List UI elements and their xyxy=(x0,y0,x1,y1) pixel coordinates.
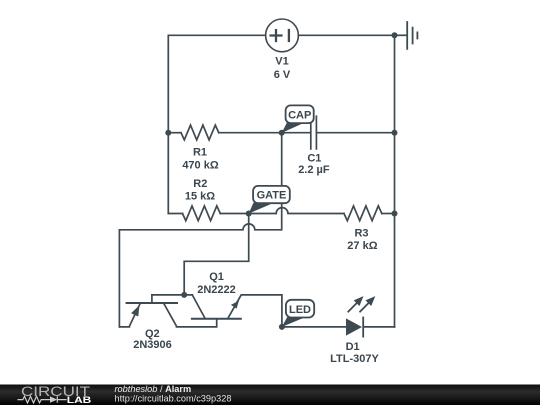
right rail xyxy=(394,35,396,327)
svg-text:C1: C1 xyxy=(307,152,321,164)
transistor Q2 collector xyxy=(164,304,176,326)
transistor Q1 collector xyxy=(192,295,205,318)
LED light arrows xyxy=(348,302,358,312)
LED D1 cathode bar and wire to rail xyxy=(363,318,394,337)
svg-text:D1: D1 xyxy=(346,341,360,353)
voltage source V1 xyxy=(266,19,299,52)
junction dot R3 right xyxy=(392,211,398,217)
resistor R3 xyxy=(344,206,382,221)
junction dot base node xyxy=(181,292,187,298)
wire R3 to right rail xyxy=(382,213,395,215)
svg-text:R3: R3 xyxy=(354,228,368,240)
svg-text:LED: LED xyxy=(289,304,311,316)
svg-text:R2: R2 xyxy=(193,178,207,190)
junction dot R1 left xyxy=(165,130,171,136)
Q1 emitter arrowhead xyxy=(231,301,239,309)
svg-text:R1: R1 xyxy=(193,146,207,158)
transistor Q2 base bar xyxy=(127,302,177,304)
wire GATE node to R3 (hump over vertical) xyxy=(249,208,344,214)
svg-text:6 V: 6 V xyxy=(274,69,291,81)
logo resistor-diode glyph xyxy=(18,396,67,403)
wire R2 row with hump over x=282 xyxy=(168,213,182,215)
wire left rail to R1 xyxy=(168,132,181,134)
svg-text:2N2222: 2N2222 xyxy=(197,284,236,296)
wire top-left and left rail xyxy=(168,35,265,213)
svg-text:15 kΩ: 15 kΩ xyxy=(185,191,215,203)
wire CAP node down, left (hump over x=249), down to Q2 emitter xyxy=(119,133,281,327)
callout CAP xyxy=(282,105,314,132)
callout GATE xyxy=(249,186,290,214)
wire V1 to ground xyxy=(298,34,394,36)
svg-text:27 kΩ: 27 kΩ xyxy=(347,240,377,252)
wire Q1 base to Q2 collector xyxy=(177,319,217,327)
callout LED xyxy=(282,300,314,327)
svg-text:2.2 µF: 2.2 µF xyxy=(298,164,330,176)
junction dot C1 right xyxy=(392,130,398,136)
svg-text:CAP: CAP xyxy=(288,109,311,121)
LED arrowhead 2 xyxy=(366,296,376,306)
LED triangle xyxy=(346,318,362,335)
transistor Q2 base lead xyxy=(151,295,153,302)
svg-text:LTL-307Y: LTL-307Y xyxy=(330,353,379,365)
svg-text:470 kΩ: 470 kΩ xyxy=(182,159,219,171)
Q2 emitter arrowhead xyxy=(131,305,139,316)
svg-text:2N3906: 2N3906 xyxy=(133,339,172,351)
transistor Q2 emitter xyxy=(119,304,139,327)
svg-text:V1: V1 xyxy=(275,55,288,67)
svg-text:GATE: GATE xyxy=(257,190,287,202)
svg-text:robtheslob / Alarm: robtheslob / Alarm xyxy=(115,384,192,394)
capacitor C1 xyxy=(282,116,395,149)
junction dot top right xyxy=(392,32,398,38)
junction dot LED node xyxy=(279,324,285,330)
resistor R1 xyxy=(181,125,219,140)
wire GATE node down, left, down to base node xyxy=(184,214,249,295)
resistor R2 xyxy=(183,206,221,221)
wire LED row xyxy=(282,326,346,328)
svg-text:LAB: LAB xyxy=(67,395,92,405)
junction dot GATE node xyxy=(246,211,252,217)
ground xyxy=(395,34,408,36)
wire base node row xyxy=(152,294,192,296)
svg-text:http://circuitlab.com/c39p328: http://circuitlab.com/c39p328 xyxy=(115,394,232,404)
wire R1 to CAP node xyxy=(219,132,282,134)
transistor Q1 emitter and wire to LED node xyxy=(228,295,282,327)
svg-text:Q1: Q1 xyxy=(209,271,224,283)
LED arrowhead 1 xyxy=(354,296,364,306)
junction dot CAP node xyxy=(279,130,285,136)
wire R2 to GATE node xyxy=(220,213,248,215)
transistor Q1 base bar xyxy=(192,318,241,320)
